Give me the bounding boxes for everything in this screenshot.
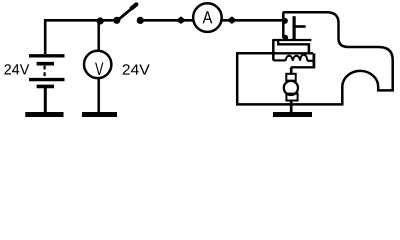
battery 24V dashed cell continuation <box>43 66 45 77</box>
horn housing outline with frame and trumpet curl <box>237 12 393 104</box>
battery 24V plate short negative lower <box>37 85 54 89</box>
ammeter A1 circle <box>193 3 222 32</box>
ammeter A1 label <box>203 11 213 23</box>
label 24V battery <box>4 64 29 74</box>
current direction arrow diamond left of ammeter <box>176 16 186 24</box>
wire: armature rod upper <box>290 67 293 74</box>
armature core right edge down to coil line <box>308 43 311 53</box>
wire: horn feed vertical from housing top <box>282 12 285 38</box>
wire: switch to ammeter <box>140 19 192 22</box>
voltmeter V1 circle <box>84 51 111 78</box>
wire: battery positive up and along top to switch pole <box>45 20 114 54</box>
switch S1 blade (open) <box>119 5 137 20</box>
wire: lower feed line through housing <box>237 52 313 54</box>
battery 24V plate long positive top <box>29 54 65 57</box>
contact dot upper on feed wire <box>282 18 288 24</box>
label 24V voltmeter reading <box>123 64 150 74</box>
wire: armature rod lower through frame <box>290 101 293 113</box>
ground bar under horn <box>273 112 312 117</box>
node junction dot at voltmeter tap <box>97 17 104 24</box>
adjuster block lower rect <box>286 94 297 101</box>
current direction arrow diamond right of ammeter <box>227 16 237 24</box>
breaker contact stub <box>294 25 306 28</box>
contact dot lower on feed wire <box>283 35 289 41</box>
switch S1 pole dot <box>113 17 120 24</box>
switch S1 throw dot <box>137 17 144 24</box>
armature core left edge <box>277 40 279 44</box>
coil lead-in line <box>273 59 285 61</box>
coil L1 winding bumps <box>286 55 308 61</box>
coil lead-out step down <box>312 53 315 67</box>
armature core bottom line <box>277 43 309 45</box>
breaker contact bar <box>293 16 296 41</box>
wire: battery negative lead down <box>44 88 47 113</box>
switch S1 blade tip bar <box>132 4 137 8</box>
battery 24V plate long positive lower <box>29 78 65 81</box>
adjuster block upper rect <box>286 74 295 81</box>
coil lead-out line <box>307 60 314 62</box>
resonator disc circle <box>284 81 298 95</box>
voltmeter V1 label <box>95 63 103 75</box>
ground bar under voltmeter <box>82 112 117 117</box>
ground bar under battery <box>25 112 63 117</box>
battery 24V plate short negative <box>37 62 54 66</box>
armature plate line <box>291 66 315 68</box>
wire: voltmeter bottom lead <box>97 78 100 112</box>
armature support vertical <box>272 40 275 61</box>
armature core top line <box>273 39 312 41</box>
wire: ammeter to horn terminal <box>222 19 284 22</box>
wire: voltmeter top lead <box>97 21 100 51</box>
